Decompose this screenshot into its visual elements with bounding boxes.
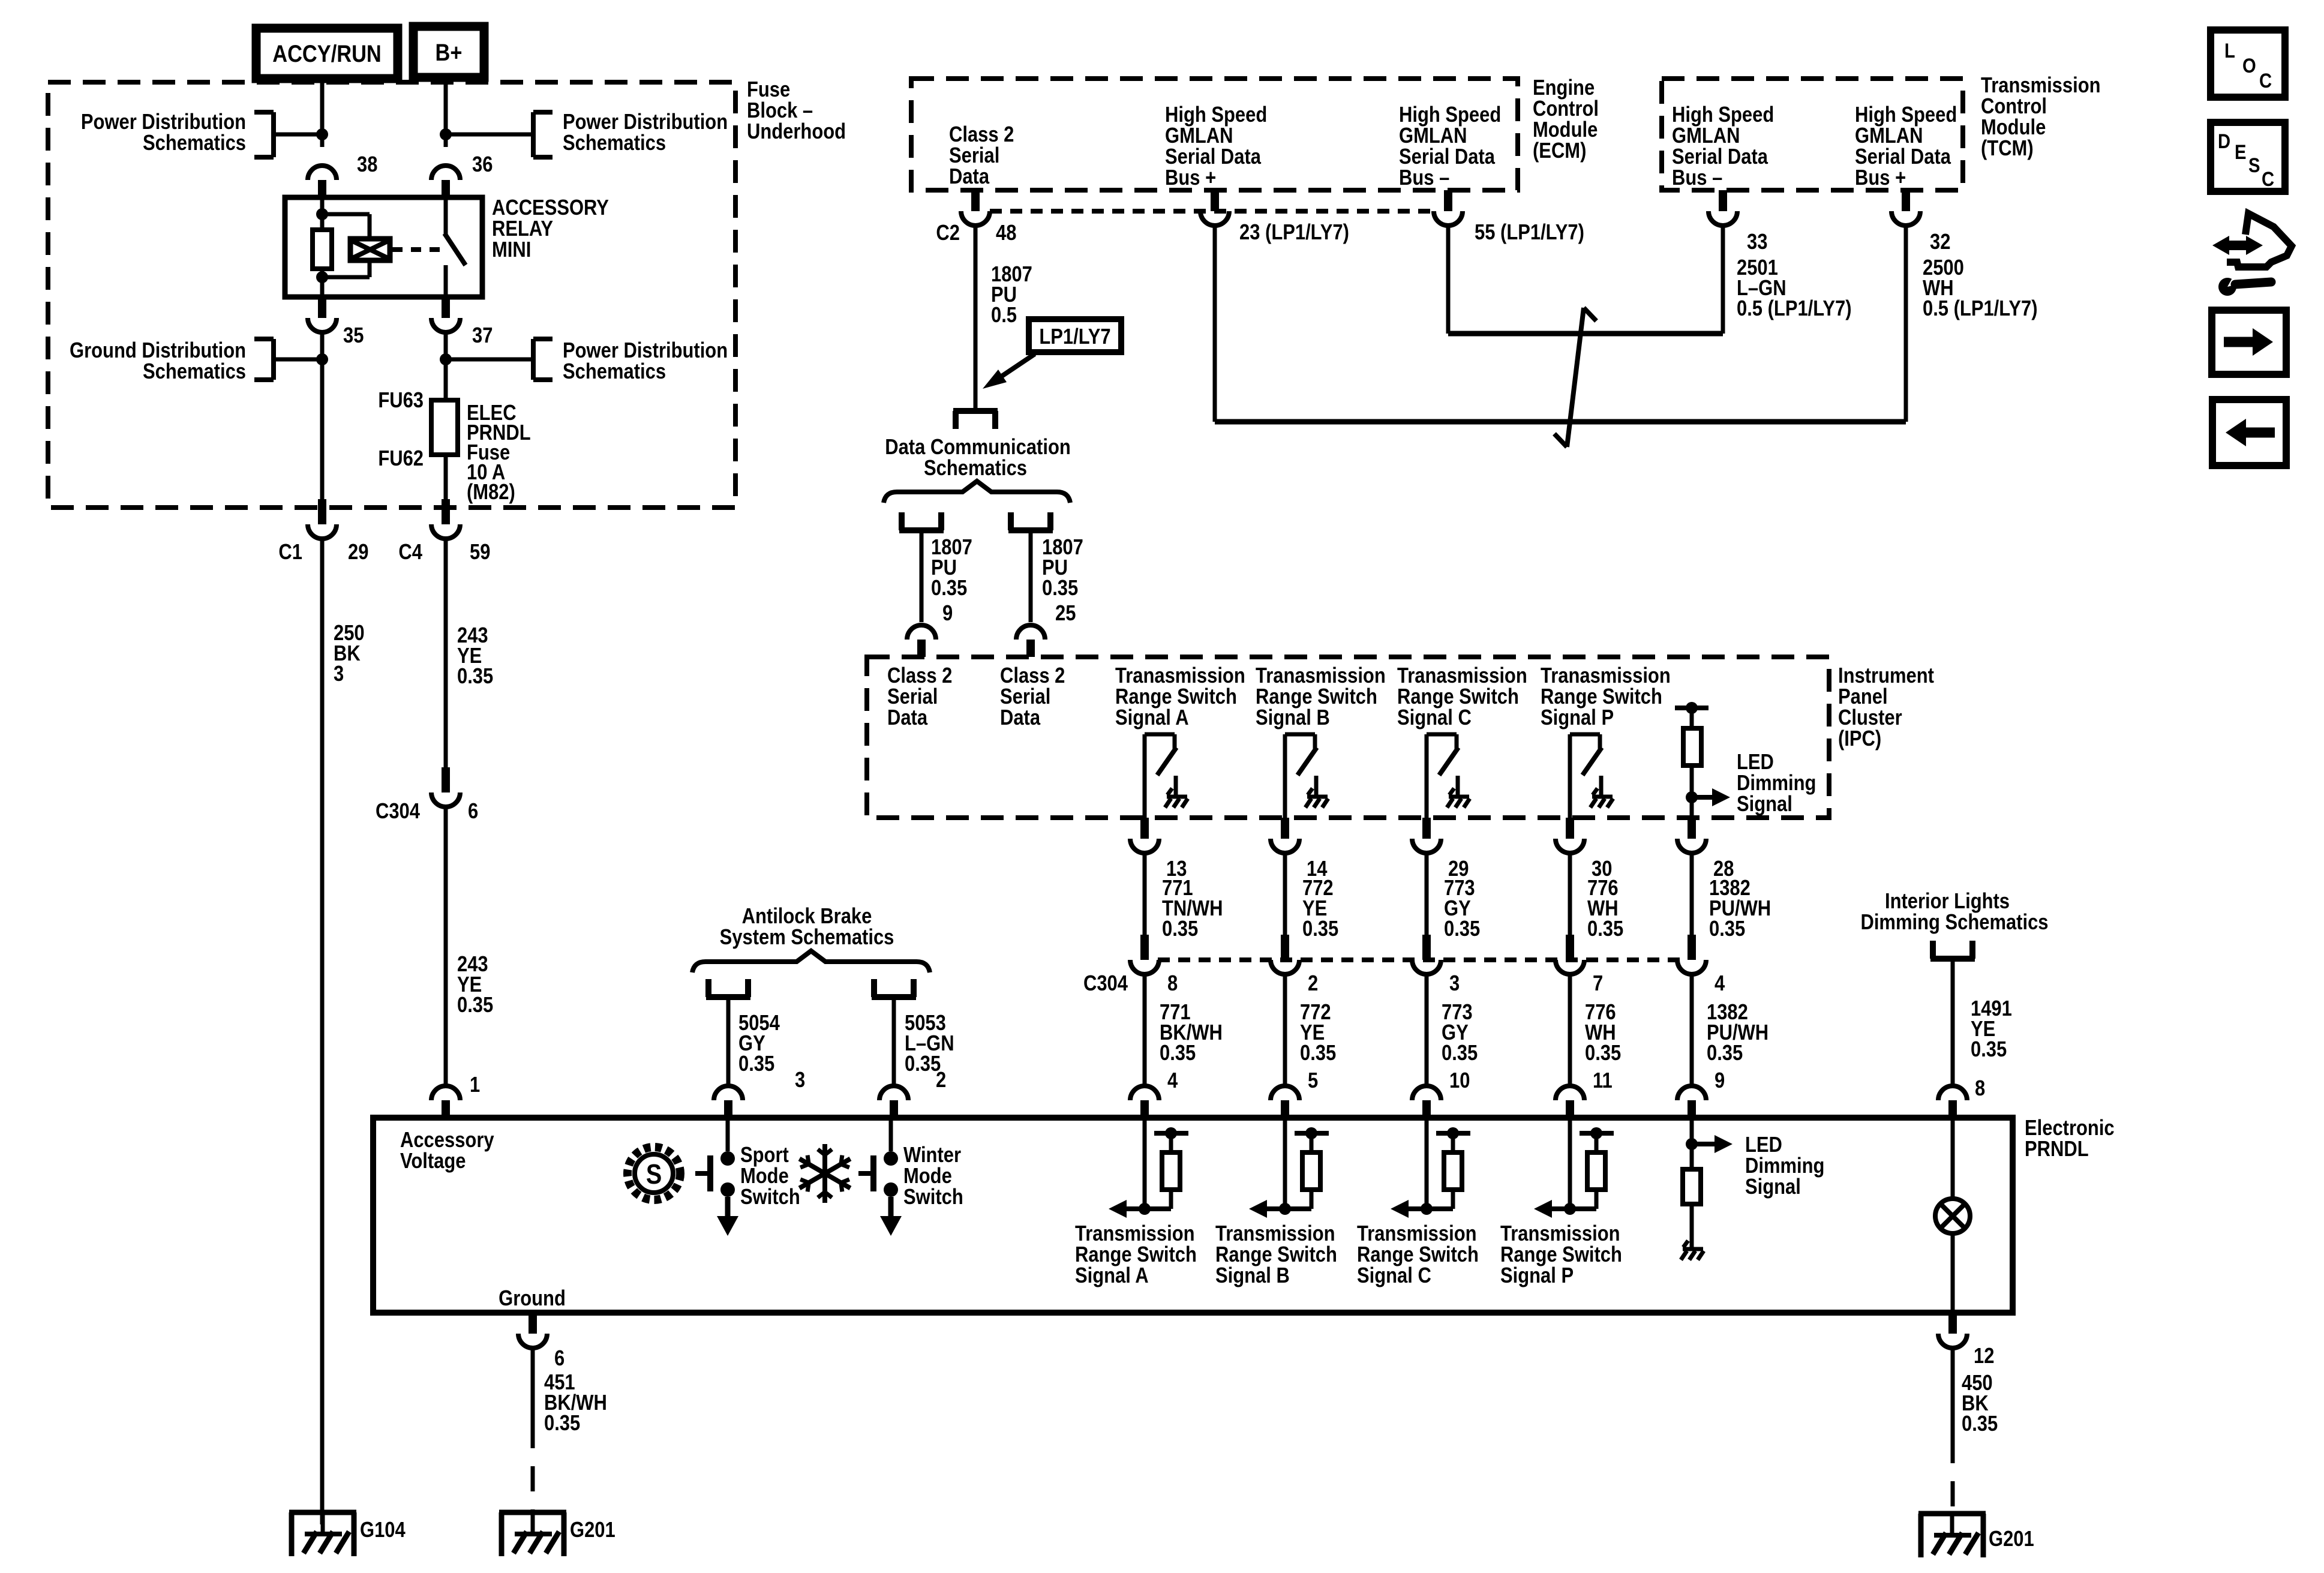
ground G201 (left) [499, 1510, 566, 1515]
svg-text:9: 9 [942, 602, 953, 626]
relay contact dashed actuator link [392, 247, 442, 252]
svg-text:(ECM): (ECM) [1533, 139, 1586, 163]
svg-text:0.35: 0.35 [457, 665, 493, 689]
svg-text:Serial Data: Serial Data [1165, 145, 1261, 169]
svg-text:7: 7 [1593, 972, 1603, 996]
svg-text:Bus +: Bus + [1855, 166, 1906, 190]
svg-text:Range Switch: Range Switch [1215, 1243, 1337, 1267]
connector ECM pin 23 [1211, 190, 1219, 211]
svg-text:0.35: 0.35 [1707, 1041, 1743, 1065]
PRNDL signal C output arrow [1400, 1206, 1453, 1211]
svg-text:D: D [2218, 130, 2230, 153]
svg-text:S: S [2248, 154, 2260, 177]
svg-text:Cluster: Cluster [1838, 706, 1902, 730]
svg-text:Data: Data [949, 165, 989, 189]
PRNDL signal C pull-up bar [1436, 1131, 1470, 1136]
svg-text:Signal C: Signal C [1397, 706, 1472, 730]
junction on B+ wire [440, 128, 452, 140]
fuse block - underhood dashed box [48, 82, 735, 508]
connector pin 35 [318, 297, 326, 318]
fuse ELEC PRNDL FU62/FU63 [431, 400, 458, 455]
wire pin37 down [444, 332, 448, 400]
wire 772 YE upper [1283, 853, 1287, 935]
stub from data comm (right 1807 PU) [1008, 512, 1014, 530]
wire 5053 L-GN [892, 997, 896, 1086]
svg-text:37: 37 [472, 324, 493, 348]
reference bracket Ground Distribution Schematics [271, 339, 276, 380]
PRNDL signal A input wire [1143, 1118, 1147, 1209]
TCM dashed box [1662, 79, 1963, 190]
connector C304 terminal 2 [1281, 935, 1289, 960]
svg-text:23 (LP1/LY7): 23 (LP1/LY7) [1239, 221, 1349, 245]
connector TCM pin 32 [1902, 190, 1910, 211]
connector PRNDL pin 2 [879, 1086, 908, 1100]
svg-text:Signal C: Signal C [1357, 1264, 1431, 1288]
wire 1382 PU/WH upper [1690, 853, 1694, 935]
connector C4 terminal 59 [442, 499, 450, 524]
wire 243 YE lower segment [444, 806, 448, 1086]
svg-text:8: 8 [1975, 1077, 1985, 1101]
svg-text:Class 2: Class 2 [887, 664, 952, 688]
svg-text:25: 25 [1055, 602, 1076, 626]
connector IPC pin 29 [1422, 818, 1431, 839]
stub interior lights dimming [1930, 941, 1936, 959]
svg-text:Switch: Switch [740, 1185, 800, 1209]
svg-text:O: O [2242, 54, 2256, 77]
brace data communication [884, 481, 1070, 503]
connector IPC pin 14 [1281, 818, 1289, 839]
svg-text:0.35: 0.35 [931, 577, 967, 601]
svg-text:MINI: MINI [492, 238, 531, 262]
svg-text:Range Switch: Range Switch [1541, 685, 1662, 709]
svg-text:Interior Lights: Interior Lights [1885, 890, 2010, 914]
connector C304 terminal 7 [1566, 935, 1574, 960]
svg-text:Transmission: Transmission [1075, 1222, 1195, 1246]
connector PRNDL pin 8 [1938, 1086, 1967, 1100]
svg-text:8: 8 [1167, 972, 1178, 996]
svg-text:12: 12 [1974, 1344, 1994, 1368]
svg-text:55 (LP1/LY7): 55 (LP1/LY7) [1475, 221, 1584, 245]
connector PRNDL ground pin 6 [529, 1313, 537, 1334]
svg-text:High Speed: High Speed [1672, 103, 1774, 127]
relay switch blade [445, 233, 466, 265]
IPC LED dimming signal arrow [1692, 795, 1714, 800]
svg-text:Serial: Serial [949, 144, 999, 168]
power feed B+ box [413, 26, 484, 77]
svg-text:11: 11 [1593, 1069, 1613, 1093]
relay switch fixed wire [444, 197, 448, 235]
svg-text:10: 10 [1449, 1069, 1470, 1093]
IPC switch ground Signal P [1592, 795, 1613, 799]
wire 243 YE upper segment [444, 538, 448, 767]
svg-text:G201: G201 [570, 1518, 615, 1542]
icon arrow right box [2212, 310, 2286, 374]
svg-text:Serial: Serial [1000, 685, 1050, 709]
icon arrow left box [2212, 400, 2286, 466]
wire 1382 PU/WH lower [1690, 973, 1694, 1086]
wire 250 BK 3 to G104 [320, 538, 325, 1524]
IPC switch Signal C [1427, 733, 1457, 737]
svg-text:Instrument: Instrument [1838, 664, 1934, 688]
connector C304 terminal 3 [1422, 935, 1431, 960]
connector row C2 dashed line [990, 209, 1434, 214]
icon gear (sport mode) [627, 1147, 680, 1200]
svg-text:High Speed: High Speed [1165, 103, 1267, 127]
ECM dashed box [911, 79, 1518, 190]
svg-text:RELAY: RELAY [492, 217, 553, 241]
junction relay coil bottom [316, 271, 328, 283]
PRNDL signal A pull-up bar [1154, 1131, 1188, 1136]
svg-text:LP1/LY7: LP1/LY7 [1039, 325, 1110, 349]
svg-text:0.35: 0.35 [1162, 917, 1198, 941]
PRNDL signal A resistor [1169, 1133, 1173, 1152]
icon LOC box [2211, 30, 2285, 97]
PRNDL signal P pull-up bar [1580, 1131, 1614, 1136]
svg-text:Transmission: Transmission [1981, 74, 2101, 98]
svg-text:Schematics: Schematics [143, 360, 246, 384]
wire 771 TN/WH upper [1143, 853, 1147, 935]
PRNDL signal C resistor [1451, 1133, 1455, 1152]
svg-text:0.5: 0.5 [991, 304, 1017, 328]
svg-text:Sport: Sport [740, 1143, 789, 1167]
svg-text:GMLAN: GMLAN [1855, 124, 1923, 148]
svg-text:3: 3 [1449, 972, 1460, 996]
connector IPC pin 9 [907, 625, 936, 640]
wire 773 GY upper [1425, 853, 1429, 935]
svg-text:0.35: 0.35 [1444, 917, 1480, 941]
svg-text:C2: C2 [936, 221, 960, 245]
connector PRNDL pin 9 [1677, 1086, 1706, 1100]
svg-text:Switch: Switch [903, 1185, 963, 1209]
svg-text:Panel: Panel [1838, 685, 1888, 709]
connector PRNDL pin 10 [1412, 1086, 1441, 1100]
svg-text:9: 9 [1715, 1069, 1725, 1093]
PRNDL signal A output arrow [1118, 1206, 1171, 1211]
Electronic PRNDL box [373, 1118, 2013, 1313]
ground G201 (right) [1918, 1511, 1986, 1517]
stub ABS sport wire [705, 979, 711, 997]
flag LP1/LY7 with arrow [1029, 319, 1121, 352]
svg-text:Tranasmission: Tranasmission [1397, 664, 1527, 688]
svg-text:2: 2 [1308, 972, 1318, 996]
svg-text:Schematics: Schematics [924, 457, 1027, 481]
connector IPC pin 25 [1016, 625, 1045, 640]
svg-text:Mode: Mode [903, 1164, 952, 1188]
svg-text:Power Distribution: Power Distribution [81, 110, 246, 134]
wire ACCY/RUN feed down to pin 38 [320, 79, 325, 147]
svg-text:ACCY/RUN: ACCY/RUN [272, 40, 382, 67]
svg-text:Signal: Signal [1737, 792, 1792, 816]
wire 773 GY lower [1425, 973, 1429, 1086]
wire 450 BK [1951, 1348, 1955, 1438]
svg-text:Schematics: Schematics [563, 360, 666, 384]
IPC switch Signal B [1285, 733, 1315, 737]
svg-text:Range Switch: Range Switch [1256, 685, 1377, 709]
svg-text:6: 6 [468, 800, 478, 824]
wire B+ feed down to pin 36 [444, 77, 448, 147]
connector PRNDL pin 4 [1130, 1086, 1159, 1100]
svg-text:0.35: 0.35 [1971, 1038, 2007, 1062]
svg-text:LED: LED [1737, 751, 1774, 775]
svg-text:Serial Data: Serial Data [1855, 145, 1951, 169]
IPC internal wire Signal B [1283, 734, 1287, 818]
svg-text:Signal A: Signal A [1115, 706, 1189, 730]
power feed ACCY/RUN box [256, 28, 398, 79]
IPC LED dimming pull-up top bar [1675, 706, 1709, 710]
svg-text:Class 2: Class 2 [1000, 664, 1065, 688]
icon snowflake (winter mode) [822, 1144, 827, 1173]
svg-text:59: 59 [470, 541, 490, 565]
relay winding element (box with X) [350, 239, 390, 260]
svg-text:LED: LED [1745, 1133, 1782, 1157]
stub to Data Communication Schematics [953, 411, 959, 429]
reference bracket Power Distribution Schematics (fuse) [531, 339, 536, 380]
svg-text:Data: Data [887, 706, 927, 730]
PRNDL LED dimming resistor [1683, 1169, 1701, 1204]
relay box ACCESSORY RELAY MINI [285, 197, 482, 297]
svg-text:GMLAN: GMLAN [1399, 124, 1467, 148]
PRNDL signal B output arrow [1259, 1206, 1311, 1211]
svg-text:C304: C304 [376, 800, 420, 824]
svg-text:Signal B: Signal B [1215, 1264, 1290, 1288]
svg-text:Transmission: Transmission [1215, 1222, 1335, 1246]
svg-text:Class 2: Class 2 [949, 123, 1014, 147]
svg-text:Accessory: Accessory [400, 1128, 494, 1152]
svg-text:Data Communication: Data Communication [885, 436, 1071, 460]
svg-text:High Speed: High Speed [1855, 103, 1957, 127]
svg-text:Power Distribution: Power Distribution [563, 110, 728, 134]
connector C304 terminal 8 [1140, 935, 1149, 960]
svg-text:0.35: 0.35 [1160, 1041, 1196, 1065]
connector pin 37 [442, 297, 450, 318]
wire 1807 PU 0.35 left [920, 530, 924, 622]
svg-text:36: 36 [472, 153, 493, 177]
svg-text:Bus –: Bus – [1672, 166, 1722, 190]
svg-text:1: 1 [470, 1073, 480, 1097]
svg-text:Fuse: Fuse [747, 78, 790, 102]
svg-text:G104: G104 [360, 1518, 406, 1542]
svg-text:Block –: Block – [747, 99, 813, 123]
connector PRNDL pin 12 [1948, 1313, 1957, 1334]
svg-text:0.35: 0.35 [738, 1052, 774, 1076]
PRNDL signal B pull-up bar [1295, 1131, 1329, 1136]
PRNDL LED dimming arrow [1692, 1142, 1717, 1146]
svg-text:Ground: Ground [499, 1287, 566, 1311]
svg-text:B+: B+ [436, 39, 463, 66]
IPC internal wire Signal C [1425, 734, 1429, 818]
connector PRNDL pin 3 [714, 1086, 743, 1100]
connector pin 36 [431, 166, 460, 180]
IPC switch Signal A [1145, 733, 1175, 737]
PRNDL LED dimming junction [1686, 1138, 1698, 1150]
stub ABS winter wire [871, 979, 877, 997]
svg-text:C4: C4 [398, 541, 422, 565]
svg-text:Signal P: Signal P [1500, 1264, 1574, 1288]
connector C2 pin 48 [971, 190, 980, 211]
connector IPC pin 30 [1566, 818, 1574, 839]
svg-text:(TCM): (TCM) [1981, 137, 2034, 161]
svg-text:C: C [2262, 167, 2274, 191]
sport mode switch [726, 1118, 730, 1151]
svg-text:GMLAN: GMLAN [1672, 124, 1740, 148]
connector IPC pin 28 [1688, 818, 1696, 839]
connector PRNDL pin 11 [1556, 1086, 1584, 1100]
svg-text:Data: Data [1000, 706, 1040, 730]
svg-text:C: C [2259, 69, 2272, 92]
IPC switch ground Signal B [1307, 795, 1328, 799]
svg-text:GMLAN: GMLAN [1165, 124, 1233, 148]
svg-text:Underhood: Underhood [747, 120, 846, 144]
wire 776 WH upper [1568, 853, 1572, 935]
svg-text:Signal A: Signal A [1075, 1264, 1149, 1288]
svg-text:Signal: Signal [1745, 1175, 1801, 1199]
svg-text:0.5 (LP1/LY7): 0.5 (LP1/LY7) [1923, 297, 2038, 321]
reference bracket Power Distribution Schematics (B+) [531, 112, 536, 157]
svg-text:Module: Module [1533, 118, 1598, 142]
PRNDL signal B resistor [1310, 1133, 1314, 1152]
svg-text:High Speed: High Speed [1399, 103, 1501, 127]
connector pin 38 [308, 166, 337, 180]
svg-text:0.35: 0.35 [1962, 1412, 1998, 1436]
IPC LED dimming resistor [1690, 708, 1694, 728]
stub from data comm (left 1807 PU) [899, 512, 905, 530]
svg-text:System Schematics: System Schematics [720, 926, 894, 950]
reference bracket Power Distribution Schematics (ACCY/RUN) [271, 112, 276, 157]
svg-text:Tranasmission: Tranasmission [1541, 664, 1671, 688]
svg-text:38: 38 [357, 153, 377, 177]
PRNDL LED dimming ground [1683, 1247, 1703, 1251]
wire 776 WH lower [1568, 973, 1572, 1086]
svg-text:Schematics: Schematics [143, 131, 246, 155]
svg-text:Ground Distribution: Ground Distribution [70, 339, 246, 363]
svg-text:5: 5 [1308, 1069, 1318, 1093]
svg-text:Range Switch: Range Switch [1115, 685, 1237, 709]
svg-text:E: E [2235, 140, 2246, 164]
svg-text:Range Switch: Range Switch [1075, 1243, 1197, 1267]
svg-text:Serial Data: Serial Data [1672, 145, 1768, 169]
svg-text:0.35: 0.35 [1585, 1041, 1621, 1065]
svg-text:Transmission: Transmission [1357, 1222, 1477, 1246]
svg-text:0.35: 0.35 [457, 993, 493, 1017]
svg-text:Serial: Serial [887, 685, 938, 709]
wire pin35 down [320, 332, 325, 499]
wire 771 BK/WH lower [1143, 973, 1147, 1086]
svg-text:0.35: 0.35 [1042, 577, 1078, 601]
wire 772 YE lower [1283, 973, 1287, 1086]
svg-text:4: 4 [1167, 1069, 1178, 1093]
svg-text:32: 32 [1930, 230, 1950, 254]
winter mode switch [889, 1118, 893, 1151]
icon DESC box [2211, 122, 2285, 191]
svg-text:Dimming: Dimming [1737, 772, 1816, 795]
connector row C304 dashed line [1158, 957, 1680, 962]
svg-text:Mode: Mode [740, 1164, 789, 1188]
wire 1491 YE [1951, 959, 1955, 1086]
IPC switch ground Signal A [1167, 795, 1187, 799]
svg-text:Serial Data: Serial Data [1399, 145, 1495, 169]
svg-text:Antilock Brake: Antilock Brake [742, 905, 872, 929]
svg-text:C304: C304 [1083, 972, 1128, 996]
connector C1 terminal 29 [318, 499, 326, 524]
wire 5054 GY [726, 997, 731, 1086]
connector PRNDL pin 5 [1271, 1086, 1299, 1100]
PRNDL LED dimming input wire [1690, 1118, 1694, 1169]
svg-text:S: S [646, 1159, 662, 1190]
junction on ACCY/RUN wire [316, 128, 328, 140]
svg-text:Control: Control [1533, 97, 1599, 121]
svg-text:Signal B: Signal B [1256, 706, 1330, 730]
svg-text:Dimming: Dimming [1745, 1154, 1824, 1178]
svg-text:29: 29 [348, 541, 368, 565]
wire 451 BK/WH [531, 1348, 535, 1423]
svg-text:G201: G201 [1989, 1527, 2034, 1551]
svg-text:3: 3 [795, 1068, 805, 1092]
IPC internal wire Signal A [1143, 734, 1147, 818]
svg-text:Signal P: Signal P [1541, 706, 1614, 730]
wire GMLAN Bus- ECM55 to TCM33 [1446, 226, 1451, 334]
IPC internal wire Signal P [1568, 734, 1572, 818]
wire GMLAN Bus+ ECM23 to TCM32 [1213, 226, 1217, 422]
svg-text:Tranasmission: Tranasmission [1115, 664, 1245, 688]
connector ECM pin 55 [1444, 190, 1452, 211]
svg-text:FU62: FU62 [378, 447, 424, 471]
svg-text:48: 48 [996, 221, 1016, 245]
svg-text:Range Switch: Range Switch [1500, 1243, 1622, 1267]
IPC switch Signal P [1570, 733, 1600, 737]
PRNDL signal P input wire [1568, 1118, 1572, 1209]
svg-text:FU63: FU63 [378, 389, 424, 413]
junction ground distribution [316, 353, 328, 365]
svg-text:Tranasmission: Tranasmission [1256, 664, 1386, 688]
IPC switch ground Signal C [1449, 795, 1469, 799]
relay coil feed wire [320, 197, 325, 230]
PRNDL indicator lamp [1951, 1118, 1955, 1199]
connector pin 1 Electronic PRNDL [431, 1086, 460, 1100]
svg-text:0.35: 0.35 [1709, 917, 1745, 941]
svg-text:Range Switch: Range Switch [1397, 685, 1519, 709]
svg-text:(IPC): (IPC) [1838, 727, 1881, 751]
svg-text:(M82): (M82) [467, 481, 515, 505]
svg-text:PRNDL: PRNDL [2025, 1137, 2089, 1161]
svg-text:2: 2 [936, 1068, 946, 1092]
ground G104 [289, 1510, 356, 1515]
relay winding branch wire [322, 212, 370, 217]
svg-text:6: 6 [554, 1347, 565, 1371]
connector C304 terminal 4 [1688, 935, 1696, 960]
svg-text:Winter: Winter [903, 1143, 961, 1167]
junction relay coil top [316, 208, 328, 220]
relay coil resistor [313, 230, 332, 269]
svg-text:Range Switch: Range Switch [1357, 1243, 1479, 1267]
connector C304 terminal 6 [442, 767, 450, 792]
svg-text:0.35: 0.35 [1442, 1041, 1478, 1065]
svg-text:0.35: 0.35 [544, 1412, 580, 1436]
connector TCM pin 33 [1719, 190, 1727, 211]
svg-text:Schematics: Schematics [563, 131, 666, 155]
svg-text:3: 3 [334, 662, 344, 686]
wire 1807 PU 0.5 [974, 226, 978, 409]
PRNDL signal B input wire [1283, 1118, 1287, 1209]
svg-text:Bus –: Bus – [1399, 166, 1449, 190]
PRNDL signal P resistor [1595, 1133, 1599, 1152]
connector IPC pin 13 [1140, 818, 1149, 839]
svg-text:Power Distribution: Power Distribution [563, 339, 728, 363]
svg-text:Bus +: Bus + [1165, 166, 1216, 190]
svg-text:33: 33 [1747, 230, 1767, 254]
svg-text:Module: Module [1981, 116, 2046, 140]
svg-text:0.35: 0.35 [1587, 917, 1623, 941]
IPC dashed box [867, 657, 1829, 818]
